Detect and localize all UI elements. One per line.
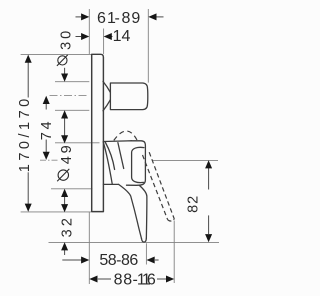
svg-text:88-116: 88-116 — [114, 272, 156, 289]
svg-text:58-86: 58-86 — [99, 252, 138, 269]
svg-text:74: 74 — [39, 119, 55, 140]
svg-text:82: 82 — [185, 195, 201, 213]
svg-text:32: 32 — [59, 215, 75, 238]
svg-text:61-89: 61-89 — [97, 10, 140, 27]
svg-text:49: 49 — [59, 143, 75, 165]
svg-text:30: 30 — [59, 28, 75, 50]
svg-text:14: 14 — [113, 28, 131, 45]
svg-text:170/170: 170/170 — [17, 95, 33, 172]
